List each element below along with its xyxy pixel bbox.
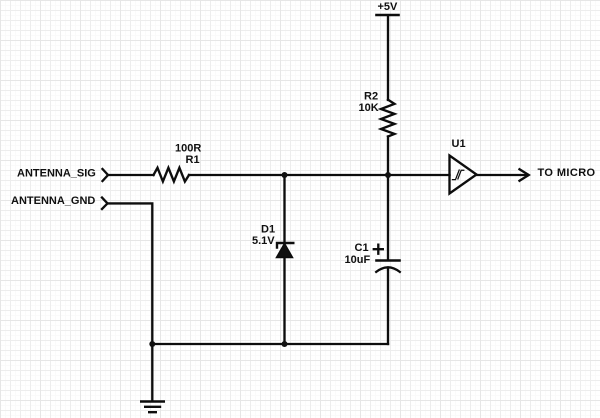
svg-text:10K: 10K [359,102,379,114]
wire +5V to R2 [387,16,389,100]
svg-text:C1: C1 [355,242,369,254]
capacitor C1 plus sign [374,245,383,254]
svg-text:U1: U1 [452,138,466,150]
svg-text:100R: 100R [175,142,201,154]
wire R2 to node [387,137,389,176]
junction node R1/D1 [282,172,288,178]
arrow to micro [520,169,529,180]
op-amp U1 hysteresis symbol [452,170,463,180]
power +5V bar [377,14,399,17]
svg-text:ANTENNA_GND: ANTENNA_GND [11,195,95,207]
ground symbol [141,402,164,413]
port ANTENNA_GND chevron [102,198,108,210]
resistor R1 [154,168,190,182]
op-amp U1 buffer triangle [450,156,477,194]
svg-text:ANTENNA_SIG: ANTENNA_SIG [17,167,96,179]
wire ground stem [151,344,153,401]
svg-text:+5V: +5V [378,1,399,13]
diode D1 triangle [277,244,293,258]
wire node to D1 [283,175,285,243]
wire port to R1 [108,174,154,176]
junction node D1 bottom [282,341,288,347]
diode D1 zener bar [277,243,293,248]
svg-text:R2: R2 [364,91,378,103]
svg-text:R1: R1 [186,154,200,166]
svg-text:5.1V: 5.1V [252,235,275,247]
svg-text:D1: D1 [261,223,275,235]
wire bottom rail [152,343,388,345]
capacitor C1 bottom curved plate [376,267,400,272]
junction node ground rail left [149,341,155,347]
wire D1 to bottom rail [283,258,285,345]
resistor R2 [381,100,395,137]
svg-text:10uF: 10uF [345,254,371,266]
wire R1 to U1 input [189,174,450,176]
junction node R2/C1 [385,172,391,178]
wire node to C1 [387,175,389,260]
wire U1 output [477,174,529,176]
port ANTENNA_SIG chevron [103,169,109,181]
wire C1 to bottom rail [387,268,389,345]
wire ANTENNA_GND to ground rail [108,203,153,344]
svg-text:TO MICRO: TO MICRO [538,167,596,179]
capacitor C1 top plate [377,259,400,262]
